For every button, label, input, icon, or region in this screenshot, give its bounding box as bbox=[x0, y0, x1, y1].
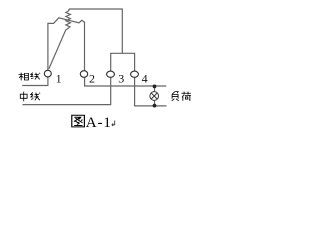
coil L1 voltage coil (vertical zigzag) with lead to terminal 1 bbox=[49, 9, 71, 69]
label 负荷 (load) bbox=[172, 92, 191, 101]
terminal 4 bbox=[131, 71, 139, 77]
pilcrow return mark bbox=[112, 121, 115, 127]
caption 图 (figure) hand-drawn bbox=[72, 115, 85, 127]
terminal 2 bbox=[80, 71, 87, 78]
junction dot lower bbox=[153, 104, 157, 108]
junction dot upper bbox=[153, 85, 157, 89]
svg-text:A-1: A-1 bbox=[86, 115, 112, 131]
coil L2 current coil between terminal 1 and terminal 2 bbox=[48, 18, 85, 71]
wire: phase lead-in to terminal 1 bbox=[22, 77, 48, 86]
terminal 3 bbox=[107, 71, 115, 77]
svg-text:3: 3 bbox=[118, 72, 124, 86]
label 相线 (phase wire) bbox=[19, 73, 40, 81]
wire: terminal 3 drop to neutral line bbox=[22, 77, 110, 104]
terminal 1 bbox=[44, 70, 51, 77]
svg-text:4: 4 bbox=[142, 71, 148, 85]
label 中线 (neutral wire) bbox=[20, 92, 40, 102]
wire: terminal 4 drop to load return bbox=[135, 77, 167, 106]
wire: lamp stubs bbox=[154, 86, 156, 106]
svg-text:1: 1 bbox=[56, 71, 62, 85]
wire: line from terminal 2 to load (phase out) bbox=[85, 77, 167, 86]
svg-text:2: 2 bbox=[89, 72, 95, 86]
lamp EL load bbox=[150, 92, 159, 101]
wire: header bar over terminals 3 and 4 with risers bbox=[111, 53, 135, 70]
wire: top line from voltage coil to meter link, with drop to header bar bbox=[69, 9, 122, 53]
